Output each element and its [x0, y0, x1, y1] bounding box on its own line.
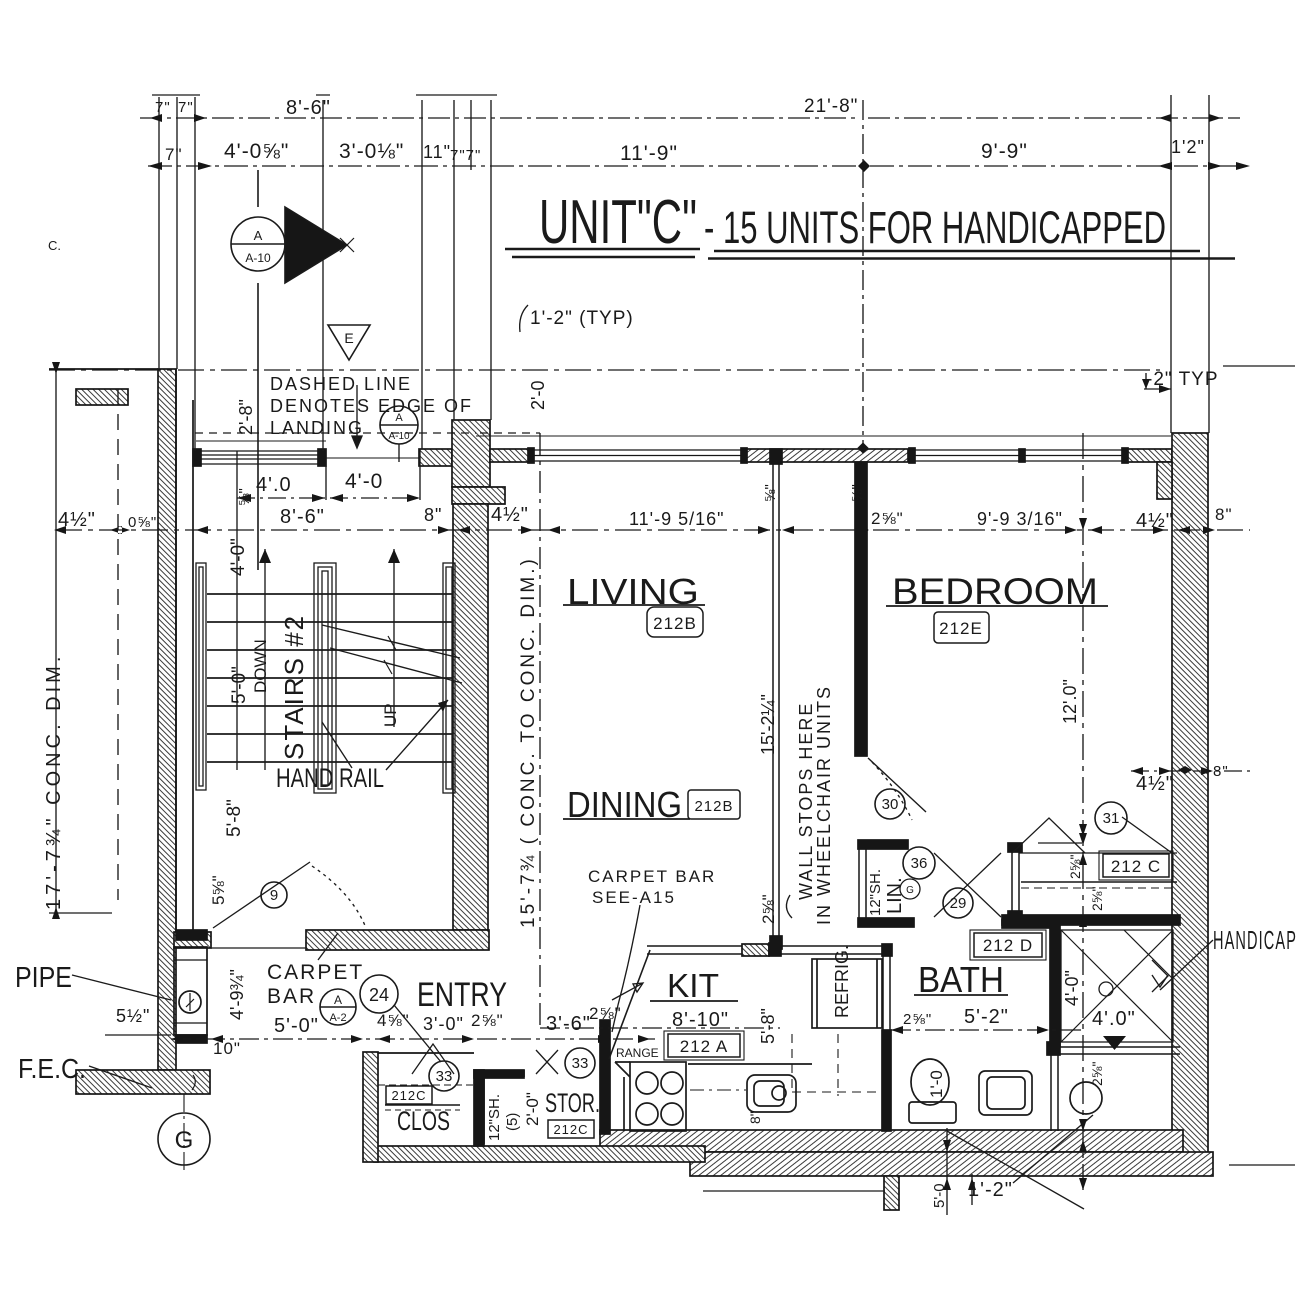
- svg-text:212C: 212C: [391, 1088, 426, 1103]
- svg-text:15'-2¼": 15'-2¼": [758, 694, 778, 755]
- svg-text:HAND RAIL: HAND RAIL: [276, 763, 384, 793]
- svg-text:2⅝": 2⅝": [1089, 1062, 1105, 1086]
- svg-text:G: G: [906, 885, 914, 896]
- svg-text:11'-9 5/16": 11'-9 5/16": [629, 509, 725, 529]
- svg-text:2⅝": 2⅝": [871, 509, 904, 528]
- svg-text:4'-0⅝": 4'-0⅝": [224, 140, 289, 163]
- svg-text:12"SH.: 12"SH.: [867, 869, 884, 916]
- svg-text:5'-0": 5'-0": [274, 1015, 319, 1037]
- svg-text:STAIRS #2: STAIRS #2: [279, 614, 309, 760]
- svg-text:REFRIG.: REFRIG.: [832, 945, 852, 1018]
- svg-text:4'.0: 4'.0: [256, 474, 292, 496]
- svg-text:DOWN: DOWN: [251, 639, 270, 693]
- svg-text:UNIT"C": UNIT"C": [539, 188, 697, 257]
- svg-text:4'-0: 4'-0: [345, 470, 383, 493]
- svg-text:4½": 4½": [1136, 510, 1174, 532]
- svg-text:3'-0": 3'-0": [423, 1014, 464, 1034]
- svg-text:2⅝": 2⅝": [471, 1011, 504, 1030]
- svg-text:IN WHEELCHAIR UNITS: IN WHEELCHAIR UNITS: [814, 685, 834, 925]
- svg-text:212E: 212E: [939, 619, 983, 638]
- svg-text:212 A: 212 A: [680, 1037, 729, 1056]
- svg-text:4½": 4½": [491, 504, 529, 526]
- svg-text:HANDICAP: HANDICAP: [1213, 925, 1297, 955]
- svg-text:(5): (5): [504, 1113, 521, 1131]
- svg-text:A: A: [395, 412, 403, 424]
- svg-text:1'-0: 1'-0: [927, 1070, 946, 1098]
- svg-text:CLOS: CLOS: [397, 1106, 450, 1136]
- svg-text:15'-7¾ ( CONC. TO CONC. DIM.): 15'-7¾ ( CONC. TO CONC. DIM.): [518, 556, 539, 928]
- svg-text:9: 9: [270, 887, 278, 904]
- svg-text:5'-0: 5'-0: [931, 1183, 948, 1208]
- svg-text:1'-2" (TYP): 1'-2" (TYP): [530, 308, 634, 329]
- svg-text:4½": 4½": [58, 509, 96, 531]
- svg-text:2'-0": 2'-0": [523, 1092, 542, 1126]
- svg-text:-2" TYP: -2" TYP: [1146, 369, 1219, 390]
- svg-text:- 15 UNITS FOR HANDICAPPED: - 15 UNITS FOR HANDICAPPED: [704, 202, 1166, 253]
- svg-text:11'-9": 11'-9": [620, 142, 678, 165]
- svg-text:8'-6": 8'-6": [280, 506, 325, 528]
- svg-text:7": 7": [155, 99, 171, 116]
- svg-text:212B: 212B: [653, 614, 697, 633]
- svg-text:A: A: [254, 228, 263, 243]
- svg-text:3'-6": 3'-6": [546, 1013, 591, 1035]
- svg-text:4'.0": 4'.0": [1092, 1008, 1136, 1030]
- svg-text:4⅝": 4⅝": [377, 1011, 410, 1030]
- svg-text:212 D: 212 D: [983, 936, 1033, 955]
- svg-text:8": 8": [1213, 763, 1229, 780]
- svg-text:24: 24: [369, 985, 389, 1005]
- svg-text:8'-6": 8'-6": [286, 97, 331, 119]
- svg-text:8'-10": 8'-10": [672, 1009, 729, 1031]
- svg-text:PIPE: PIPE: [15, 962, 72, 994]
- svg-text:BATH: BATH: [918, 959, 1004, 1000]
- svg-text:33: 33: [572, 1055, 589, 1072]
- svg-text:SEE-A15: SEE-A15: [592, 888, 676, 907]
- svg-text:8": 8": [424, 505, 442, 525]
- svg-text:9'-9 3/16": 9'-9 3/16": [977, 509, 1063, 529]
- svg-text:4½": 4½": [1136, 773, 1174, 795]
- svg-text:A-10: A-10: [388, 431, 410, 442]
- svg-text:7": 7": [178, 99, 194, 116]
- svg-text:C.: C.: [48, 238, 61, 253]
- svg-text:CARPET BAR: CARPET BAR: [588, 867, 716, 886]
- svg-text:212C: 212C: [553, 1122, 588, 1137]
- svg-text:5⅝": 5⅝": [209, 875, 228, 905]
- svg-text:ENTRY: ENTRY: [417, 976, 507, 1014]
- svg-text:BAR: BAR: [267, 985, 316, 1008]
- svg-text:30: 30: [882, 796, 899, 813]
- svg-text:2⅝": 2⅝": [759, 894, 778, 924]
- svg-text:9'-9": 9'-9": [981, 140, 1028, 163]
- svg-text:⅝": ⅝": [849, 484, 866, 502]
- svg-text:36: 36: [911, 855, 928, 872]
- svg-text:12'.0": 12'.0": [1060, 679, 1080, 724]
- svg-text:8": 8": [747, 1111, 763, 1124]
- svg-text:5'-8": 5'-8": [758, 1008, 778, 1044]
- svg-text:21'-8": 21'-8": [804, 96, 858, 117]
- svg-text:33: 33: [436, 1068, 453, 1085]
- svg-text:2'-0: 2'-0: [528, 381, 548, 410]
- svg-text:⅝": ⅝": [236, 488, 253, 506]
- svg-text:2⅝": 2⅝": [589, 1004, 622, 1023]
- svg-text:LANDING: LANDING: [270, 418, 364, 438]
- svg-text:212 C: 212 C: [1111, 857, 1161, 876]
- svg-text:12"SH.: 12"SH.: [486, 1094, 503, 1141]
- svg-text:2⅝": 2⅝": [1089, 887, 1105, 911]
- svg-text:CARPET: CARPET: [267, 961, 364, 984]
- svg-text:212B: 212B: [694, 798, 733, 815]
- svg-text:E: E: [344, 330, 353, 346]
- svg-text:1'-2": 1'-2": [968, 1179, 1013, 1201]
- svg-text:2⅝": 2⅝": [1067, 855, 1083, 879]
- svg-text:KIT: KIT: [667, 967, 719, 1004]
- svg-text:A-10: A-10: [245, 251, 271, 265]
- svg-text:7"7": 7"7": [450, 147, 481, 164]
- svg-text:4'-0": 4'-0": [228, 538, 249, 576]
- svg-text:0⅝": 0⅝": [128, 514, 157, 531]
- svg-text:2⅝": 2⅝": [903, 1011, 932, 1028]
- svg-text:DENOTES EDGE OF: DENOTES EDGE OF: [270, 396, 473, 416]
- svg-text:4'-0": 4'-0": [1062, 970, 1082, 1006]
- svg-text:A-2: A-2: [329, 1012, 346, 1024]
- svg-text:31: 31: [1103, 810, 1120, 827]
- svg-text:2'-8": 2'-8": [236, 399, 256, 435]
- svg-text:WALL STOPS HERE: WALL STOPS HERE: [796, 702, 816, 900]
- svg-text:17'-7¾" CONC. DIM.: 17'-7¾" CONC. DIM.: [43, 653, 65, 910]
- svg-text:RANGE: RANGE: [616, 1046, 659, 1060]
- svg-text:8": 8": [1215, 505, 1233, 524]
- svg-text:5½": 5½": [116, 1006, 150, 1026]
- svg-text:F.E.C.: F.E.C.: [18, 1053, 86, 1084]
- svg-text:5'-8": 5'-8": [224, 799, 245, 837]
- svg-text:STOR.: STOR.: [545, 1088, 600, 1118]
- svg-text:A: A: [334, 993, 342, 1007]
- svg-text:3'-0⅛": 3'-0⅛": [339, 140, 404, 163]
- svg-text:7": 7": [165, 145, 183, 164]
- svg-text:10": 10": [213, 1039, 241, 1058]
- svg-text:5'-0": 5'-0": [229, 666, 250, 704]
- svg-text:11": 11": [423, 142, 451, 162]
- svg-text:4'-9¾": 4'-9¾": [227, 969, 247, 1020]
- svg-text:1'2": 1'2": [1171, 137, 1205, 157]
- svg-text:29: 29: [950, 895, 967, 912]
- svg-text:⅝": ⅝": [762, 484, 779, 502]
- svg-text:DASHED LINE: DASHED LINE: [270, 374, 412, 394]
- svg-text:UP: UP: [381, 703, 400, 727]
- svg-text:5'-2": 5'-2": [964, 1006, 1009, 1028]
- svg-text:G: G: [175, 1127, 194, 1154]
